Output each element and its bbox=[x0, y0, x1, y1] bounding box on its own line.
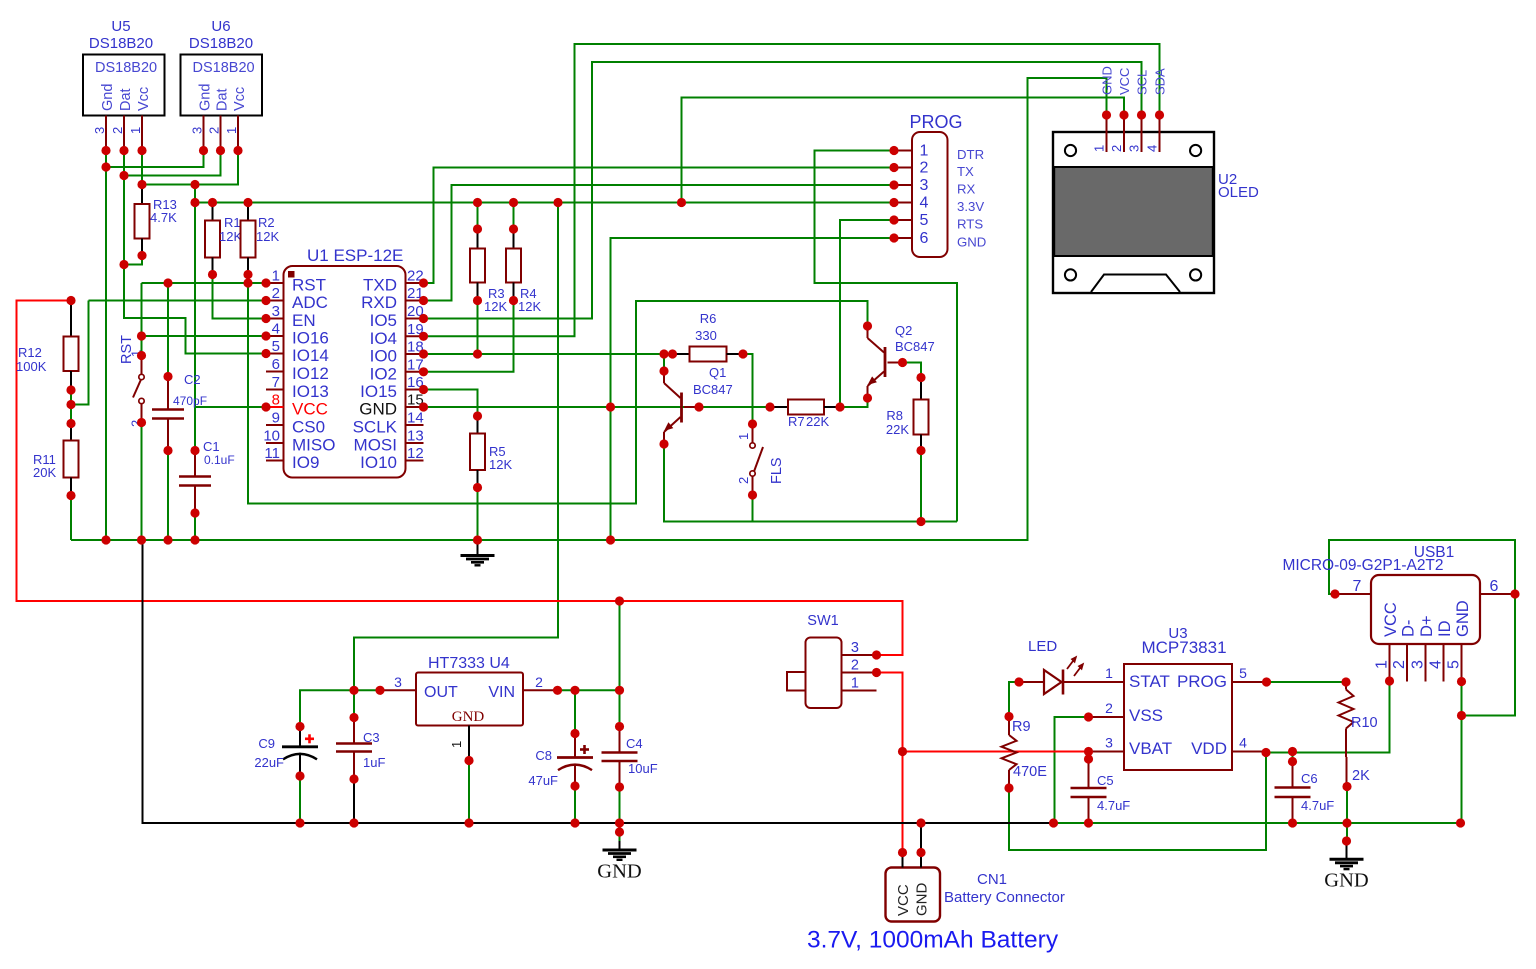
connector CN1 battery connector box bbox=[886, 868, 941, 922]
svg-text:IO14: IO14 bbox=[292, 346, 329, 365]
junction dot (681.5,202.5) bbox=[677, 198, 686, 207]
resistor R2 12K bbox=[247, 203, 249, 221]
svg-text:IO12: IO12 bbox=[292, 364, 329, 383]
svg-text:1: 1 bbox=[224, 127, 239, 134]
svg-text:2: 2 bbox=[851, 658, 859, 674]
junction dot (513.5,229) bbox=[509, 224, 518, 233]
junction dot (423.5,371.8) bbox=[419, 367, 428, 376]
svg-text:Vcc: Vcc bbox=[232, 87, 248, 111]
svg-text:GND: GND bbox=[452, 709, 485, 725]
resistor R5 12K bbox=[477, 416, 479, 434]
junction dot (1141.5,115) bbox=[1137, 110, 1146, 119]
ESP pin 14 SCLK bbox=[406, 424, 424, 426]
wire: R3 column to IO0 row bbox=[477, 301, 479, 355]
svg-text:7: 7 bbox=[1353, 578, 1362, 595]
svg-text:STAT: STAT bbox=[1129, 672, 1170, 691]
sensor U6 DS18B20 box bbox=[181, 55, 263, 116]
svg-text:2: 2 bbox=[920, 160, 929, 177]
junction dot (1088.5,717) bbox=[1084, 712, 1093, 721]
svg-text:7: 7 bbox=[272, 374, 280, 391]
svg-text:VDD: VDD bbox=[1191, 739, 1227, 758]
junction dot (664,354) bbox=[659, 349, 668, 358]
U6 pins bbox=[203, 116, 205, 151]
wire: ESP IO4 to OLED SDA bbox=[424, 44, 1160, 336]
wire: USB pin5 GND column to ground bus bbox=[1461, 682, 1463, 824]
wire: ESP GND pin15 row to Q1 base / R7 bbox=[424, 406, 771, 408]
resistor R9 body (zigzag) bbox=[1002, 735, 1017, 770]
svg-text:2: 2 bbox=[110, 127, 125, 134]
svg-text:1: 1 bbox=[1092, 145, 1107, 152]
svg-text:22uF: 22uF bbox=[254, 755, 284, 770]
junction dot (1088.5,823) bbox=[1084, 818, 1093, 827]
ESP pin 7 IO13 bbox=[266, 389, 284, 391]
wire: Q2 emitter to R7 right node bbox=[840, 398, 868, 407]
junction dot (266,283) bbox=[261, 278, 270, 287]
svg-text:4.7K: 4.7K bbox=[150, 210, 177, 225]
wire: CN1 GND pin to ground bus bbox=[920, 823, 922, 853]
svg-text:U1 ESP-12E: U1 ESP-12E bbox=[307, 246, 403, 265]
svg-text:C5: C5 bbox=[1097, 773, 1114, 788]
svg-text:RXD: RXD bbox=[361, 293, 397, 312]
junction dot (1053.5,823) bbox=[1049, 818, 1058, 827]
capacitor C5 bbox=[1088, 759, 1090, 788]
junction dot (894,185) bbox=[889, 180, 898, 189]
SW1 pin 1 bbox=[842, 690, 877, 692]
U3 pin 4 VDD bbox=[1232, 751, 1266, 753]
junction dot (71,423.5) bbox=[66, 419, 75, 428]
svg-text:10: 10 bbox=[263, 428, 280, 445]
junction dot (867.5,398) bbox=[863, 393, 872, 402]
svg-text:R12: R12 bbox=[18, 345, 42, 360]
wire: R4 top from 3.3V row bbox=[513, 203, 515, 230]
wire: C6 column from VDD row bbox=[1292, 752, 1294, 762]
svg-text:3: 3 bbox=[1410, 660, 1427, 669]
svg-text:D-: D- bbox=[1400, 620, 1418, 637]
junction dot (894,150.5) bbox=[889, 146, 898, 155]
ESP pin 3 EN bbox=[266, 318, 284, 320]
junction dot (106,167) bbox=[101, 162, 110, 171]
junction dot (921,521.5) bbox=[916, 517, 925, 526]
ESP pin 12 IO10 bbox=[406, 460, 424, 462]
U4 pin 1 GND bbox=[468, 726, 470, 761]
wire: PROG DTR pin1 down and across to right border down to transistor block rail bbox=[815, 151, 958, 522]
junction dot (513.5,202.5) bbox=[509, 198, 518, 207]
junction dot (168,376.5) bbox=[163, 372, 172, 381]
junction dot (423.5,354) bbox=[419, 349, 428, 358]
junction dot (141.5,336) bbox=[137, 331, 146, 340]
svg-text:1uF: 1uF bbox=[363, 755, 385, 770]
svg-text:2: 2 bbox=[1391, 660, 1408, 669]
capacitor C3 bbox=[353, 718, 355, 744]
ESP pin 8 VCC bbox=[266, 406, 284, 408]
junction dot (1088.5,759) bbox=[1084, 754, 1093, 763]
junction dot (557.5,690.3) bbox=[553, 686, 562, 695]
junction dot (752.5,495) bbox=[748, 490, 757, 499]
junction dot (266,318.5) bbox=[261, 314, 270, 323]
wire: Q1 emitter down to transistor block ground rail bbox=[664, 444, 957, 522]
svg-text:3: 3 bbox=[272, 303, 280, 320]
junction dot (106,540) bbox=[101, 535, 110, 544]
svg-text:DS18B20: DS18B20 bbox=[95, 60, 157, 76]
svg-text:VCC: VCC bbox=[1382, 602, 1400, 637]
resistor R13 body bbox=[135, 204, 150, 239]
svg-text:3: 3 bbox=[1127, 145, 1142, 152]
svg-text:1: 1 bbox=[736, 433, 751, 440]
svg-text:IO10: IO10 bbox=[360, 453, 397, 472]
wire: U3 PROG pin5 to R10 top bbox=[1267, 682, 1347, 690]
wire: C8 bottom to ground bus bbox=[574, 786, 576, 823]
junction dot (477.5,202.5) bbox=[473, 198, 482, 207]
svg-text:Gnd: Gnd bbox=[100, 84, 116, 111]
wire (battery +): SW1 pin2 down to CN1 VCC and right to VBAT bbox=[877, 673, 903, 853]
svg-text:3: 3 bbox=[190, 127, 205, 134]
ESP pin 9 CS0 bbox=[266, 424, 284, 426]
junction dot (168,283) bbox=[163, 278, 172, 287]
polarized capacitor C9 bbox=[299, 727, 301, 747]
junction dot (477.5,354) bbox=[473, 349, 482, 358]
ESP pin 17 IO2 bbox=[406, 371, 424, 373]
wire: HT7333 VIN row to switched battery node bbox=[558, 601, 620, 690]
capacitor C1 bbox=[194, 451, 196, 477]
svg-text:Battery Connector: Battery Connector bbox=[944, 889, 1065, 906]
junction dot (894,167.5) bbox=[889, 163, 898, 172]
wire: Q2 base to R8 top bbox=[903, 363, 922, 378]
junction dot (423.5,283) bbox=[419, 278, 428, 287]
svg-text:U6: U6 bbox=[211, 18, 230, 35]
svg-text:R6: R6 bbox=[700, 311, 717, 326]
junction dot (71,495.5) bbox=[66, 491, 75, 500]
junction dot (1292.5,761.5) bbox=[1288, 757, 1297, 766]
junction dot (610.5,407) bbox=[606, 402, 615, 411]
wire: R2 bottom through RST row down, across, up to Q2 collector (reset net) bbox=[248, 275, 868, 504]
wire: U6 Dat to Dat row bbox=[124, 151, 221, 176]
junction dot (921,852.5) bbox=[916, 848, 925, 857]
svg-text:R7: R7 bbox=[788, 414, 805, 429]
svg-text:VSS: VSS bbox=[1129, 706, 1163, 725]
resistor R3 body bbox=[470, 249, 485, 283]
wire: VDD row from U3 pin4 to USB VCC pin1 bbox=[1266, 681, 1390, 753]
junction dot (477.5,229) bbox=[473, 224, 482, 233]
resistor R4 body bbox=[506, 249, 521, 283]
svg-text:EN: EN bbox=[292, 311, 316, 330]
junction dot (1159.5,115) bbox=[1155, 110, 1164, 119]
svg-text:3.3V: 3.3V bbox=[957, 199, 984, 214]
U4 pin 3 OUT bbox=[380, 689, 416, 691]
junction dot (1106.5,115) bbox=[1102, 110, 1111, 119]
svg-text:2: 2 bbox=[1105, 700, 1113, 716]
junction dot (513.5,300.5) bbox=[509, 296, 518, 305]
junction dot (1346,682) bbox=[1341, 677, 1350, 686]
svg-text:TX: TX bbox=[957, 164, 974, 179]
svg-text:C6: C6 bbox=[1301, 771, 1318, 786]
svg-text:MICRO-09-G2P1-A2T2: MICRO-09-G2P1-A2T2 bbox=[1282, 557, 1443, 574]
OLED display U2 bbox=[1053, 132, 1214, 293]
junction dot (469,823) bbox=[464, 818, 473, 827]
svg-text:D+: D+ bbox=[1418, 615, 1436, 637]
svg-text:HT7333 U4: HT7333 U4 bbox=[428, 655, 510, 672]
wire: Dat column down, jog right, to ESP IO14 pin5 bbox=[124, 151, 266, 354]
junction dot (195,202.5) bbox=[190, 198, 199, 207]
junction dot (168,540) bbox=[163, 535, 172, 544]
svg-text:4: 4 bbox=[1239, 735, 1247, 751]
ground symbol under C4 bbox=[619, 827, 621, 842]
junction dot (1460.5,823) bbox=[1456, 818, 1465, 827]
wire: R10 bottom to ground bus bbox=[1346, 787, 1348, 824]
svg-text:VBAT: VBAT bbox=[1129, 739, 1172, 758]
junction dot (423.5,407) bbox=[419, 402, 428, 411]
U3 pin 2 VSS bbox=[1089, 716, 1125, 718]
junction dot (142,184.5) bbox=[137, 180, 146, 189]
wire: ESP IO0 row to R6 and Q1 collector bbox=[424, 353, 673, 355]
junction dot (575,690.3) bbox=[570, 686, 579, 695]
svg-text:IO0: IO0 bbox=[370, 347, 397, 366]
svg-text:6: 6 bbox=[272, 356, 280, 373]
junction dot (354,779) bbox=[349, 774, 358, 783]
junction dot (203.5,150.5) bbox=[199, 146, 208, 155]
junction dot (876.5,672.5) bbox=[872, 668, 881, 677]
svg-text:GND: GND bbox=[359, 400, 397, 419]
U4 pin 2 VIN bbox=[523, 689, 558, 691]
junction dot (354,717.5) bbox=[349, 713, 358, 722]
wire: 3.3V column down to HT7333 OUT row bbox=[354, 203, 558, 691]
wire (ground bus, black): from green rail down and across bottom bbox=[143, 540, 1054, 823]
svg-text:8: 8 bbox=[272, 392, 280, 409]
junction dot (469,760.5) bbox=[464, 756, 473, 765]
svg-text:GND: GND bbox=[597, 860, 641, 882]
junction dot (1515,594) bbox=[1510, 589, 1519, 598]
wire (battery +): VBAT row to U3 pin3 and C5 bbox=[903, 751, 1089, 753]
junction dot (1347,786.5) bbox=[1342, 782, 1351, 791]
wire: Q1 collector stub wire bbox=[663, 354, 665, 371]
junction dot (266,336) bbox=[261, 331, 270, 340]
ground symbol bbox=[477, 540, 479, 556]
svg-text:Dat: Dat bbox=[215, 88, 231, 111]
resistor R2 body bbox=[241, 221, 256, 258]
svg-text:12K: 12K bbox=[489, 457, 512, 472]
svg-text:5: 5 bbox=[272, 338, 280, 355]
wire: 3.3V row from Vcc column to PROG pin4 bbox=[195, 202, 894, 204]
junction dot (619.5,601) bbox=[615, 596, 624, 605]
wire: OLED VCC row to 3.3V row bbox=[682, 98, 1125, 203]
svg-text:2: 2 bbox=[535, 674, 543, 690]
wire: U6 Vcc to Vcc row to U5 Vcc bbox=[142, 151, 238, 185]
svg-text:3: 3 bbox=[920, 177, 929, 194]
svg-text:1: 1 bbox=[128, 127, 143, 134]
svg-text:R2: R2 bbox=[258, 215, 275, 230]
USB1 pin 6 bbox=[1480, 593, 1515, 595]
junction dot (619.5,726.5) bbox=[615, 722, 624, 731]
SW1 pin 3 bbox=[842, 654, 877, 656]
wire: HT7333 GND pin to ground bus bbox=[468, 761, 470, 824]
wire: R11 bottom to ground rail bbox=[70, 496, 72, 541]
resistor R1 12K bbox=[212, 203, 214, 221]
wire: PROG RTS pin5 column down to R7 right node bbox=[840, 220, 894, 407]
ESP pin 15 GND bbox=[406, 406, 424, 408]
junction dot (300,776) bbox=[295, 771, 304, 780]
junction dot (423.5,336.3) bbox=[419, 332, 428, 341]
svg-text:DS18B20: DS18B20 bbox=[189, 35, 253, 52]
svg-text:Dat: Dat bbox=[118, 88, 134, 111]
wire: R3 top from 3.3V row bbox=[477, 203, 479, 230]
USB1 pins 1-5 bbox=[1389, 644, 1391, 682]
wire: USB pin7 loop over to pin6 bbox=[1329, 540, 1515, 594]
svg-text:470pF: 470pF bbox=[173, 394, 207, 408]
svg-text:1: 1 bbox=[1105, 665, 1113, 681]
svg-text:12K: 12K bbox=[484, 299, 507, 314]
svg-text:22K: 22K bbox=[806, 414, 829, 429]
svg-text:BC847: BC847 bbox=[895, 339, 935, 354]
svg-text:2: 2 bbox=[207, 127, 222, 134]
SW1 pin 2 bbox=[842, 672, 877, 674]
svg-text:2K: 2K bbox=[1352, 768, 1370, 784]
resistor R10 2K (zigzag) bbox=[1345, 682, 1347, 690]
svg-text:ID: ID bbox=[1436, 620, 1454, 637]
junction dot (1009,716.5) bbox=[1004, 712, 1013, 721]
svg-text:13: 13 bbox=[407, 428, 424, 445]
svg-text:1: 1 bbox=[920, 143, 929, 160]
wire: ground bus (green section) from U3 VSS junction to USB pin5 column bbox=[1054, 822, 1461, 824]
junction dot (1266,752.5) bbox=[1261, 748, 1270, 757]
junction dot (248,274.5) bbox=[243, 270, 252, 279]
junction dot (1335,594) bbox=[1330, 589, 1339, 598]
junction dot (1389.5,681) bbox=[1385, 676, 1394, 685]
junction dot (1292.5,751.5) bbox=[1288, 747, 1297, 756]
svg-text:SCL: SCL bbox=[1135, 70, 1150, 95]
svg-text:CS0: CS0 bbox=[292, 418, 325, 437]
svg-text:4.7uF: 4.7uF bbox=[1097, 798, 1130, 813]
svg-text:IO4: IO4 bbox=[370, 329, 397, 348]
junction dot (266,300.5) bbox=[261, 296, 270, 305]
junction dot (195,513) bbox=[190, 508, 199, 517]
wire: U3 VSS to ground bus bbox=[1055, 717, 1089, 823]
svg-text:11: 11 bbox=[264, 445, 280, 462]
svg-text:DTR: DTR bbox=[957, 147, 984, 162]
svg-text:3: 3 bbox=[92, 127, 107, 134]
wire: HT7333 OUT row with C9 branch bbox=[300, 690, 380, 726]
svg-text:6: 6 bbox=[920, 230, 929, 247]
svg-text:RST: RST bbox=[119, 335, 135, 364]
ESP pin 2 ADC bbox=[266, 300, 284, 302]
svg-text:GND: GND bbox=[957, 235, 986, 250]
resistor R3 12K bbox=[477, 229, 479, 249]
resistor R6 body bbox=[690, 347, 727, 362]
svg-text:6: 6 bbox=[1490, 578, 1499, 595]
wire: reset switch pin2 to ground rail bbox=[141, 423, 143, 541]
svg-text:12K: 12K bbox=[518, 299, 541, 314]
wire: ESP VCC pin8 row bbox=[195, 406, 266, 408]
svg-text:12K: 12K bbox=[219, 229, 242, 244]
junction dot (1292.5,823) bbox=[1288, 818, 1297, 827]
junction dot (212.5,202.5) bbox=[208, 198, 217, 207]
junction dot (195,450.5) bbox=[190, 446, 199, 455]
svg-text:IO2: IO2 bbox=[370, 364, 397, 383]
svg-text:Vcc: Vcc bbox=[136, 87, 152, 111]
junction dot (124,175.5) bbox=[119, 171, 128, 180]
wire: C2 column from RST row bbox=[167, 283, 169, 377]
resistor R11 body bbox=[64, 441, 79, 478]
junction dot (300,726.5) bbox=[295, 722, 304, 731]
svg-text:VCC: VCC bbox=[895, 884, 912, 916]
junction dot (220.5,150.5) bbox=[216, 146, 225, 155]
svg-text:C4: C4 bbox=[626, 736, 643, 751]
svg-text:4: 4 bbox=[1145, 145, 1160, 152]
svg-text:GND: GND bbox=[1324, 870, 1368, 892]
resistor R6 330 bbox=[673, 353, 690, 355]
ESP pin 1 RST bbox=[266, 282, 284, 284]
junction dot (770,407) bbox=[765, 402, 774, 411]
junction dot (266,353.5) bbox=[261, 349, 270, 358]
svg-text:RST: RST bbox=[292, 276, 326, 295]
svg-text:LED: LED bbox=[1028, 638, 1057, 655]
svg-text:4: 4 bbox=[1428, 660, 1445, 669]
junction dot (248,202.5) bbox=[243, 198, 252, 207]
svg-text:OLED: OLED bbox=[1218, 184, 1259, 201]
junction dot (902.5,362.5) bbox=[898, 358, 907, 367]
U3 pin 3 VBAT bbox=[1089, 751, 1125, 753]
PROG pin 1 DTR bbox=[894, 150, 912, 152]
svg-text:R9: R9 bbox=[1012, 719, 1031, 735]
junction dot (619.5,832) bbox=[615, 827, 624, 836]
svg-text:ADC: ADC bbox=[292, 293, 328, 312]
svg-text:U5: U5 bbox=[111, 18, 130, 35]
svg-text:4: 4 bbox=[920, 195, 929, 212]
sensor U5 DS18B20 box bbox=[83, 55, 165, 116]
junction dot (142,255.5) bbox=[137, 251, 146, 260]
svg-text:DS18B20: DS18B20 bbox=[193, 60, 255, 76]
junction dot (664,444) bbox=[659, 439, 668, 448]
junction dot (300,823) bbox=[295, 818, 304, 827]
capacitor C6 bbox=[1292, 762, 1294, 788]
resistor R5 body bbox=[470, 434, 485, 471]
svg-text:C1: C1 bbox=[203, 439, 220, 454]
junction dot (752.5,424) bbox=[748, 419, 757, 428]
junction dot (168,450.5) bbox=[163, 446, 172, 455]
PROG pin 5 RTS bbox=[894, 219, 912, 221]
svg-text:SCLK: SCLK bbox=[353, 418, 398, 437]
ESP pin 11 IO9 bbox=[266, 460, 284, 462]
junction dot (840,407) bbox=[835, 402, 844, 411]
wire: R5 bottom to ground rail bbox=[477, 488, 479, 541]
junction dot (894,202.5) bbox=[889, 198, 898, 207]
switch FLS bbox=[752, 424, 754, 443]
charger U3 MCP73831 box bbox=[1124, 664, 1232, 770]
wire: LED anode to R9 top bbox=[1009, 682, 1019, 717]
U5 pins bbox=[105, 116, 107, 151]
svg-text:Q1: Q1 bbox=[709, 365, 726, 380]
regulator U4 HT7333 bbox=[416, 673, 523, 726]
ESP pin 20 IO5 bbox=[406, 318, 424, 320]
switch RST bbox=[141, 356, 143, 375]
wire: C3 top from OUT node bbox=[353, 690, 355, 717]
svg-text:5: 5 bbox=[920, 212, 929, 229]
ground symbol right (under R10) bbox=[1346, 823, 1348, 842]
svg-text:IO13: IO13 bbox=[292, 382, 329, 401]
junction dot (195,184.5) bbox=[190, 180, 199, 189]
resistor R8 body bbox=[914, 400, 929, 435]
resistor R12 100K bbox=[70, 301, 72, 337]
wire: R1 bottom to ESP EN pin3 bbox=[213, 275, 267, 319]
ground symbol with GND label bbox=[619, 841, 621, 850]
wire: RST row from reset switch to ESP RST pin1 bbox=[142, 282, 267, 284]
junction dot (354,823) bbox=[349, 818, 358, 827]
wire: C5 column from VBAT node bbox=[1088, 752, 1090, 760]
ground symbol with GND label bbox=[1346, 843, 1348, 859]
junction dot (1347,823) bbox=[1342, 818, 1351, 827]
junction dot (664,371) bbox=[659, 366, 668, 375]
junction dot (1019,682) bbox=[1014, 677, 1023, 686]
svg-text:MCP73831: MCP73831 bbox=[1141, 638, 1226, 657]
svg-text:VIN: VIN bbox=[488, 684, 515, 701]
